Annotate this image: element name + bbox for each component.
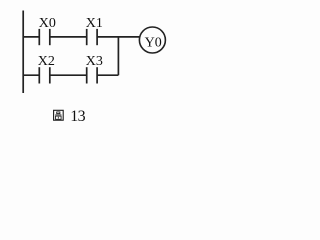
svg-text:X3: X3 bbox=[86, 54, 103, 69]
svg-text:X0: X0 bbox=[39, 16, 56, 31]
svg-text:X1: X1 bbox=[86, 16, 103, 31]
svg-text:X2: X2 bbox=[38, 54, 55, 69]
svg-text:Y0: Y0 bbox=[145, 36, 162, 51]
svg-text:13: 13 bbox=[70, 108, 85, 125]
